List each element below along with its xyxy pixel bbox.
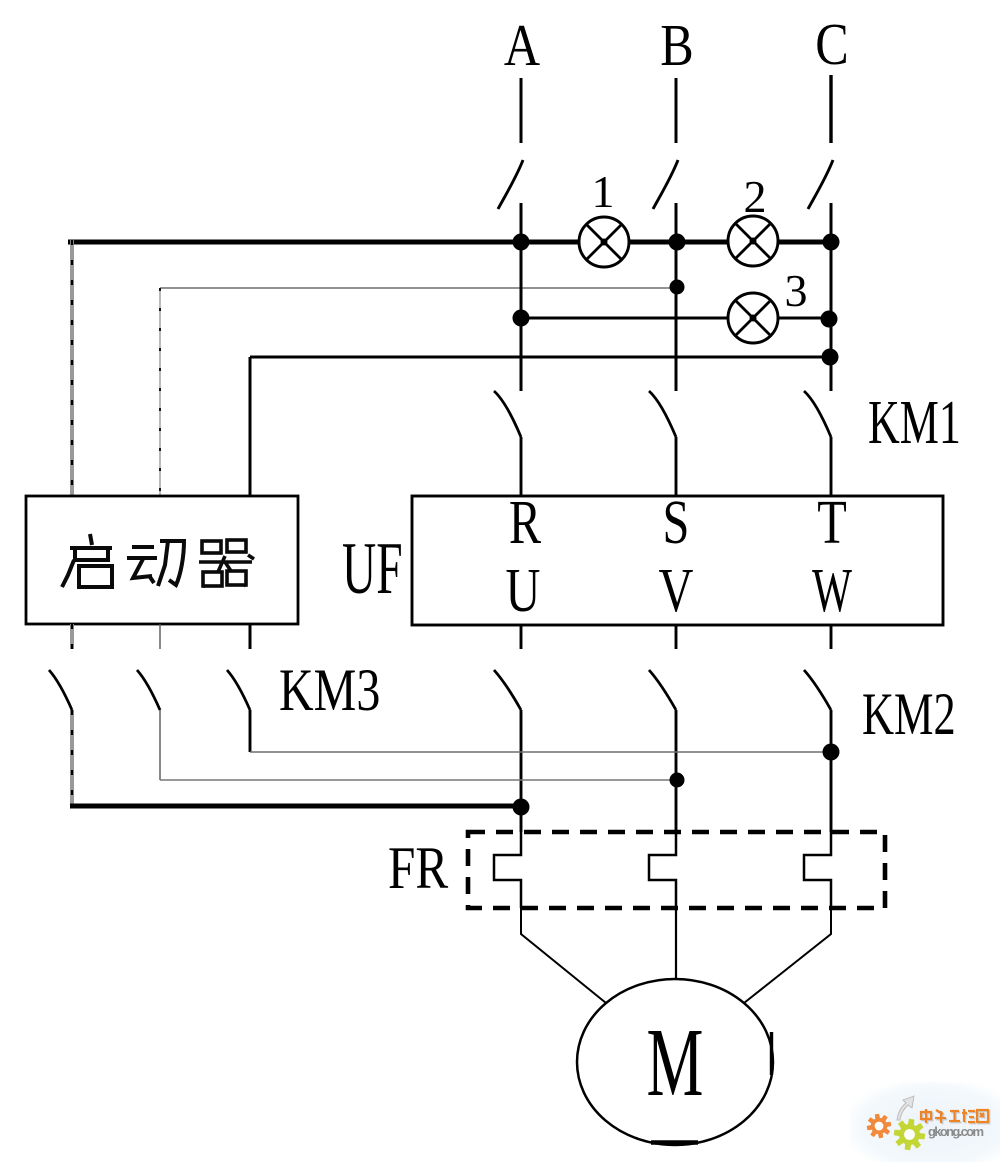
- svg-text:S: S: [663, 488, 690, 557]
- contactor KM3 contact 1: [49, 670, 72, 710]
- wire tap y=288: [160, 287, 677, 289]
- heater element W: [804, 832, 831, 908]
- junction bus-C: [823, 234, 840, 251]
- svg-text:KM1: KM1: [868, 388, 961, 457]
- wire phase A to bus: [520, 203, 523, 242]
- svg-text:U: U: [506, 556, 541, 625]
- svg-text:V: V: [659, 556, 694, 625]
- wire KM3-3 to W y=752: [250, 751, 831, 753]
- contactor KM2 contact W: [804, 670, 831, 710]
- wire starter input 1 vertical: [70, 240, 74, 496]
- motor M circle: [577, 979, 773, 1145]
- svg-text:3: 3: [785, 265, 808, 316]
- svg-text:KM2: KM2: [862, 682, 956, 748]
- contactor KM2 contact U: [494, 670, 521, 710]
- wire KM1-B to UF: [675, 437, 678, 496]
- bus wire y=242: [68, 240, 832, 245]
- wire phase C mid: [830, 242, 833, 391]
- heater element V: [649, 832, 676, 908]
- wire starter out 2: [159, 624, 161, 649]
- thermal relay FR box: [468, 832, 885, 908]
- svg-text:W: W: [812, 557, 852, 625]
- junction tap-B: [670, 280, 685, 295]
- starter text char dong: [127, 541, 184, 586]
- wire UF out V: [675, 625, 678, 649]
- wire starter out 1 lower: [70, 710, 74, 806]
- wire KM3-2 to V y=780: [160, 779, 677, 781]
- svg-text:gkong.com: gkong.com: [928, 1124, 984, 1139]
- lamp 1: [579, 217, 629, 267]
- contactor KM1 contact A: [494, 391, 521, 437]
- svg-text:B: B: [660, 12, 693, 78]
- starter text char qi3: [199, 540, 254, 587]
- wire U lower: [520, 710, 523, 832]
- soft starter UF box: [412, 496, 943, 625]
- watermark gear green: [894, 1119, 926, 1151]
- svg-text:FR: FR: [388, 834, 449, 901]
- wire UF out U: [520, 625, 523, 649]
- motor bottom tick: [651, 1140, 698, 1144]
- starter box (qi dong qi): [26, 496, 298, 624]
- wire starter out 1: [70, 624, 74, 649]
- junction lamp3-A: [513, 310, 530, 327]
- disconnect switch blade phase B: [653, 160, 678, 209]
- svg-text:KM3: KM3: [279, 657, 380, 723]
- wire phase A drop: [520, 78, 523, 143]
- contactor KM2 contact V: [649, 670, 676, 710]
- contactor KM3 contact 3: [227, 670, 250, 710]
- wire V lower: [675, 710, 678, 832]
- wire starter out 3: [249, 624, 252, 649]
- heater element U: [494, 832, 521, 908]
- svg-text:1: 1: [592, 166, 615, 217]
- motor right edge tick: [770, 1032, 773, 1075]
- junction W-752: [823, 744, 840, 761]
- watermark text zhonghuagongkongwang: [921, 1109, 989, 1124]
- wire phase B drop: [675, 78, 678, 143]
- junction bus-B: [669, 234, 686, 251]
- svg-text:C: C: [815, 11, 848, 77]
- disconnect switch blade phase A: [498, 160, 523, 209]
- svg-text:2: 2: [744, 171, 767, 222]
- wire starter input 3 vertical: [249, 357, 252, 496]
- wire W to motor: [744, 908, 831, 1003]
- junction bus-A: [513, 234, 530, 251]
- wire UF out W: [830, 625, 833, 649]
- wire KM1-A to UF: [520, 437, 523, 496]
- junction U-806: [513, 799, 530, 816]
- junction tap-C: [822, 349, 839, 366]
- wire tap y=357: [250, 356, 831, 359]
- wire starter input 2 vertical: [159, 288, 161, 496]
- watermark gear orange: [867, 1114, 892, 1139]
- contactor KM1 contact C: [804, 391, 831, 437]
- contactor KM1 contact B: [649, 391, 676, 437]
- junction V-780: [670, 773, 685, 788]
- wire KM1-C to UF: [830, 437, 833, 496]
- wire phase A mid: [520, 242, 523, 391]
- svg-text:T: T: [817, 488, 847, 557]
- wire phase C drop: [829, 75, 832, 143]
- lamp 3: [728, 293, 778, 343]
- wire KM3-1 to U y=806: [70, 804, 521, 809]
- svg-text:R: R: [509, 488, 541, 557]
- svg-text:M: M: [647, 1009, 704, 1116]
- svg-text:A: A: [504, 12, 541, 78]
- junction lamp3-C: [821, 311, 838, 328]
- lamp 2: [728, 216, 778, 266]
- wire U to motor: [521, 908, 606, 1003]
- wire V to motor: [675, 908, 677, 979]
- disconnect switch blade phase C: [808, 160, 833, 209]
- wire lamp3 row y=318: [521, 317, 831, 320]
- wire W lower: [830, 710, 833, 832]
- wire phase B mid: [675, 242, 678, 391]
- starter text char qi: [62, 534, 112, 587]
- contactor KM3 contact 2: [137, 670, 160, 710]
- wire starter out 2 lower: [159, 710, 161, 780]
- wire phase C to bus: [830, 203, 833, 242]
- wire phase B to bus: [675, 203, 678, 242]
- svg-text:UF: UF: [342, 529, 403, 610]
- watermark arrow: [897, 1096, 914, 1120]
- wire starter out 3 lower: [249, 710, 252, 752]
